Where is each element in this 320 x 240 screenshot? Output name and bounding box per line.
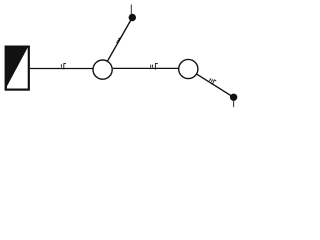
external grid U1 [5,46,29,91]
wire W2 (node N1 to node N2) [113,67,179,69]
node N2 (circle) [179,59,198,78]
node N1 (circle) [93,60,112,79]
branch B1 (node N1 up to terminal T1) [108,18,133,61]
phase marks on wire W1 [61,63,66,69]
stub above terminal T1 [130,5,132,15]
phase marks on branch B1 [116,37,121,43]
phase marks on wire W2 [151,63,158,69]
terminal T2 (dot) [230,94,237,101]
wire W1 (external grid to node N1) [30,68,93,70]
stub below terminal T2 [233,101,235,107]
phase marks on branch B2 [210,78,217,84]
terminal T1 (dot) [129,14,136,21]
branch B2 (node N2 down to terminal T2) [197,74,234,97]
